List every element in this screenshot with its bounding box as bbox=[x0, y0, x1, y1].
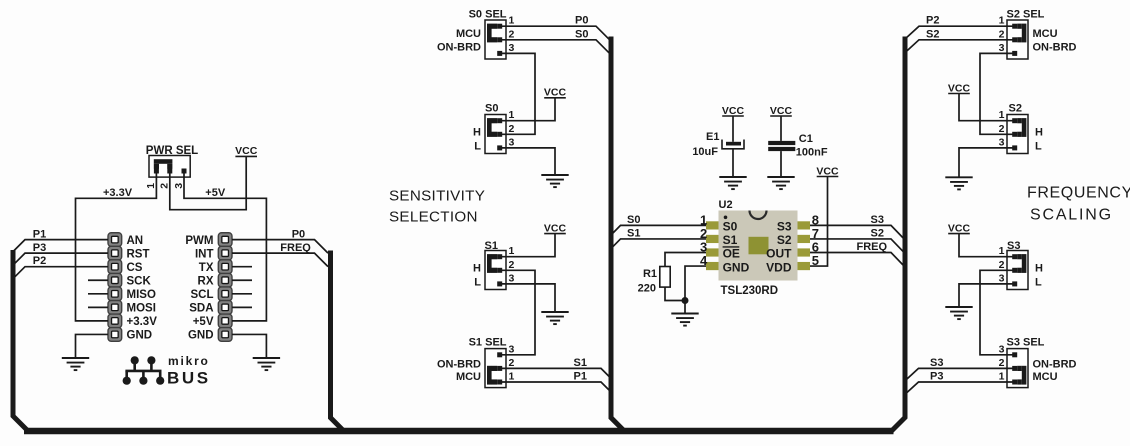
svg-text:VDD: VDD bbox=[766, 260, 792, 274]
wire net FREQ from CN2 INT to bus bbox=[232, 253, 328, 267]
svg-text:RX: RX bbox=[198, 275, 214, 287]
pin names of CN2 right column bbox=[185, 235, 213, 342]
svg-text:3: 3 bbox=[999, 272, 1005, 284]
jumper S2 bbox=[1007, 115, 1028, 154]
svg-text:S3: S3 bbox=[871, 214, 884, 226]
svg-text:ON-BRD: ON-BRD bbox=[437, 42, 481, 54]
svg-text:S3: S3 bbox=[1007, 240, 1020, 252]
svg-text:1: 1 bbox=[999, 109, 1005, 121]
svg-text:FREQ: FREQ bbox=[280, 242, 311, 254]
svg-text:VCC: VCC bbox=[544, 87, 567, 99]
connector CN2 mikroBUS right column (PWM..GND) bbox=[218, 233, 232, 342]
wire PWR SEL pin1 to +3.3V rail to CN1 +3.3V pin bbox=[76, 171, 157, 321]
pin numbers of S1 bbox=[509, 245, 515, 284]
wire stub CN2 SDA bbox=[232, 306, 252, 308]
svg-text:P2: P2 bbox=[33, 255, 46, 267]
svg-text:2: 2 bbox=[159, 183, 171, 189]
wire net S3 from U2 pin8 to bus bbox=[810, 225, 905, 239]
svg-text:FREQ: FREQ bbox=[857, 241, 888, 253]
pin numbers of S0 SEL bbox=[509, 15, 515, 54]
svg-text:3: 3 bbox=[999, 42, 1005, 54]
svg-text:1: 1 bbox=[509, 15, 515, 27]
wire net FREQ from U2 pin6 to bus bbox=[810, 253, 905, 267]
svg-text:+5V: +5V bbox=[205, 187, 226, 199]
svg-text:S1: S1 bbox=[723, 233, 738, 247]
wire S2 pin3 to ground bbox=[959, 148, 1015, 177]
wire net P0 from CN2 PWM to bus bbox=[232, 240, 328, 254]
svg-text:PWM: PWM bbox=[185, 235, 213, 247]
svg-text:H: H bbox=[1035, 126, 1043, 138]
wire S3 pin1 to VCC bbox=[959, 234, 1015, 257]
svg-text:ON-BRD: ON-BRD bbox=[437, 358, 481, 370]
wire net P3 from S3 SEL pin1 to bus bbox=[905, 382, 1015, 395]
wire bus right vertical (frequency scaling nets) bbox=[892, 37, 906, 432]
svg-text:S1: S1 bbox=[627, 228, 640, 240]
svg-text:+3.3V: +3.3V bbox=[103, 187, 133, 199]
svg-text:S0: S0 bbox=[575, 28, 588, 40]
wire net S2 from S2 SEL pin2 to bus bbox=[905, 40, 1015, 53]
wire net S0 from bus to U2 pin1 bbox=[611, 225, 706, 235]
svg-text:S1: S1 bbox=[574, 357, 587, 369]
svg-text:GND: GND bbox=[188, 330, 214, 342]
wire net P2 from S2 SEL pin1 to bus bbox=[905, 26, 1015, 39]
svg-text:1: 1 bbox=[509, 245, 515, 257]
wire S3 pin2 to S3 SEL pin3 bbox=[980, 270, 1015, 355]
svg-text:P1: P1 bbox=[574, 371, 587, 383]
wire net P1 from bus to CN1 AN bbox=[13, 240, 108, 252]
wire S1 pin2 to S1 SEL pin3 bbox=[500, 270, 535, 355]
power symbol VCC (S1 pin1) bbox=[544, 222, 567, 234]
svg-text:2: 2 bbox=[509, 28, 515, 40]
pin numbers of S3 SEL bbox=[999, 343, 1005, 382]
IC U2 TSL230RD body bbox=[706, 211, 810, 281]
svg-text:U2: U2 bbox=[719, 199, 733, 211]
ground (S3 pin3) bbox=[945, 307, 972, 319]
svg-text:+3.3V: +3.3V bbox=[127, 316, 158, 328]
wire PWR SEL pin3 to +5V rail to CN2 +5V pin bbox=[184, 171, 266, 321]
wire net P3 from bus to CN1 RST bbox=[13, 253, 108, 265]
svg-text:3: 3 bbox=[509, 343, 515, 355]
svg-text:P3: P3 bbox=[930, 371, 943, 383]
svg-text:VCC: VCC bbox=[770, 105, 793, 117]
wire S0 pin1 to VCC bbox=[500, 98, 555, 121]
svg-text:INT: INT bbox=[195, 248, 214, 260]
svg-text:S3 SEL: S3 SEL bbox=[1007, 337, 1045, 349]
svg-text:SCL: SCL bbox=[191, 289, 214, 301]
ground (CN2 GND) bbox=[253, 358, 280, 370]
wire S3 pin3 to ground bbox=[959, 284, 1015, 307]
wire S2 pin1 to VCC bbox=[959, 94, 1015, 121]
jumper S3 SEL bbox=[1007, 349, 1028, 388]
pin numbers of S0 bbox=[509, 109, 515, 148]
svg-text:100nF: 100nF bbox=[796, 147, 828, 159]
ground (S0 pin3) bbox=[541, 175, 568, 187]
jumper S2 SEL bbox=[1007, 20, 1028, 59]
wire PWR SEL pin2 to VCC bbox=[170, 156, 246, 209]
svg-text:MCU: MCU bbox=[456, 371, 481, 383]
svg-text:ON-BRD: ON-BRD bbox=[1033, 42, 1077, 54]
wire S2 SEL pin3 to S2 pin2 bbox=[980, 53, 1015, 134]
svg-text:2: 2 bbox=[509, 123, 515, 135]
wire S0 SEL pin3 to S0 pin2 bbox=[500, 53, 535, 134]
svg-text:GND: GND bbox=[127, 330, 153, 342]
svg-text:S0: S0 bbox=[485, 103, 498, 115]
svg-text:3: 3 bbox=[999, 343, 1005, 355]
pin numbers of S2 bbox=[999, 109, 1005, 148]
svg-text:AN: AN bbox=[127, 235, 144, 247]
svg-text:VCC: VCC bbox=[948, 82, 971, 94]
svg-text:SCK: SCK bbox=[127, 275, 152, 287]
svg-text:3: 3 bbox=[509, 272, 515, 284]
wire stub CN1 SCK bbox=[88, 279, 108, 281]
power symbol VCC (S3 pin1) bbox=[948, 222, 971, 234]
wire net P0 from S0 SEL pin1 to bus bbox=[500, 26, 611, 41]
power symbol VCC (E1) bbox=[722, 105, 745, 117]
wire VCC to E1 plus plate bbox=[732, 116, 734, 142]
ground (C1) bbox=[767, 177, 794, 189]
svg-text:VCC: VCC bbox=[235, 145, 258, 157]
svg-text:PWR SEL: PWR SEL bbox=[146, 145, 198, 157]
power symbol VCC (U2 VDD) bbox=[816, 165, 839, 177]
svg-text:3: 3 bbox=[173, 183, 185, 189]
svg-text:H: H bbox=[473, 262, 481, 274]
svg-text:3: 3 bbox=[509, 42, 515, 54]
wire bus bottom horizontal bbox=[24, 428, 894, 435]
svg-text:S2 SEL: S2 SEL bbox=[1007, 9, 1045, 21]
svg-text:S2: S2 bbox=[1009, 103, 1022, 115]
power symbol VCC (C1) bbox=[770, 105, 793, 117]
wire E1 minus plate to ground bbox=[732, 149, 734, 177]
wire stub CN2 TX bbox=[232, 266, 252, 268]
wire U2 pin3 /OE to R1 top bbox=[665, 253, 706, 267]
svg-text:S0: S0 bbox=[627, 214, 640, 226]
wire stub CN1 MOSI bbox=[88, 306, 108, 308]
wire net S1 from bus to U2 pin2 bbox=[611, 239, 706, 249]
resistor R1 bbox=[660, 267, 670, 288]
pin numbers of S3 bbox=[999, 245, 1005, 284]
wire R1 bottom to junction bbox=[665, 287, 685, 300]
svg-text:S2: S2 bbox=[926, 28, 939, 40]
junction (R1/GND node) bbox=[682, 297, 689, 304]
svg-text:3: 3 bbox=[999, 136, 1005, 148]
svg-text:+5V: +5V bbox=[193, 316, 214, 328]
wire S1 pin1 to VCC bbox=[500, 234, 555, 257]
wire VCC to U2 pin5 VDD bbox=[810, 177, 828, 267]
svg-text:R1: R1 bbox=[643, 268, 657, 280]
svg-text:2: 2 bbox=[999, 259, 1005, 271]
jumper S0 bbox=[485, 115, 506, 154]
ground (S1 pin3) bbox=[541, 312, 568, 324]
svg-text:S0: S0 bbox=[723, 220, 738, 234]
svg-text:CS: CS bbox=[127, 262, 143, 274]
power symbol VCC (S2 pin1) bbox=[948, 82, 971, 94]
svg-text:2: 2 bbox=[999, 28, 1005, 40]
wire stub CN2 RX bbox=[232, 279, 252, 281]
svg-text:S2: S2 bbox=[871, 228, 884, 240]
wire bus left vertical (mikroBUS nets) bbox=[13, 250, 28, 431]
svg-text:3: 3 bbox=[509, 136, 515, 148]
pin numbers of PWR SEL (rotated 1 2 3) bbox=[145, 183, 185, 189]
svg-text:mikro: mikro bbox=[168, 354, 210, 368]
wire S1 pin3 to ground bbox=[500, 284, 555, 312]
svg-text:RST: RST bbox=[127, 248, 150, 260]
svg-text:VCC: VCC bbox=[948, 222, 971, 234]
svg-text:S1 SEL: S1 SEL bbox=[469, 337, 507, 349]
svg-text:2: 2 bbox=[999, 123, 1005, 135]
svg-text:1: 1 bbox=[509, 109, 515, 121]
svg-text:2: 2 bbox=[999, 357, 1005, 369]
ground (S2 pin3) bbox=[945, 177, 972, 189]
svg-text:SELECTION: SELECTION bbox=[389, 208, 478, 225]
svg-text:VCC: VCC bbox=[544, 222, 567, 234]
wire net S2 from U2 pin7 to bus bbox=[810, 239, 905, 253]
power symbol VCC (PWR SEL pin 2) bbox=[235, 145, 258, 157]
svg-text:MOSI: MOSI bbox=[127, 303, 156, 315]
svg-text:S3: S3 bbox=[930, 357, 943, 369]
mikroBUS logo bbox=[123, 354, 211, 388]
wire CN2 GND to ground bbox=[232, 334, 266, 358]
wire bus vertical between sensitivity section and U2 section bbox=[611, 37, 624, 432]
svg-text:OE: OE bbox=[723, 247, 740, 261]
svg-text:MCU: MCU bbox=[456, 28, 481, 40]
wire stub CN1 MISO bbox=[88, 293, 108, 295]
svg-text:L: L bbox=[474, 276, 481, 288]
svg-text:2: 2 bbox=[509, 357, 515, 369]
svg-text:FREQUENCY: FREQUENCY bbox=[1027, 185, 1130, 202]
wire U2 pin4 GND to junction to ground bbox=[685, 266, 706, 313]
svg-text:ON-BRD: ON-BRD bbox=[1033, 358, 1077, 370]
svg-text:H: H bbox=[473, 126, 481, 138]
wire net P1 from S1 SEL pin1 to bus bbox=[500, 382, 613, 394]
wire C1 bottom plate to ground bbox=[780, 151, 782, 177]
svg-text:MCU: MCU bbox=[1033, 28, 1058, 40]
svg-text:GND: GND bbox=[723, 260, 750, 274]
svg-text:VCC: VCC bbox=[816, 165, 839, 177]
pin labels of U2 right (S3 S2 OUT VDD) bbox=[766, 220, 792, 275]
jumper S3 bbox=[1007, 251, 1028, 290]
svg-text:L: L bbox=[1035, 276, 1042, 288]
svg-text:P0: P0 bbox=[575, 15, 588, 27]
svg-text:1: 1 bbox=[509, 371, 515, 383]
wire net P2 from bus to CN1 CS bbox=[13, 267, 108, 279]
wire bus vertical between mikroBUS and sensitivity section bbox=[331, 251, 344, 432]
svg-text:220: 220 bbox=[638, 283, 656, 295]
svg-text:P1: P1 bbox=[33, 228, 46, 240]
svg-text:E1: E1 bbox=[706, 131, 719, 143]
svg-text:C1: C1 bbox=[799, 133, 813, 145]
pin numbers of S2 SEL bbox=[999, 15, 1005, 54]
svg-text:TX: TX bbox=[199, 262, 214, 274]
svg-text:OUT: OUT bbox=[766, 247, 792, 261]
svg-text:MISO: MISO bbox=[127, 289, 156, 301]
wire net S3 from S3 SEL pin2 to bus bbox=[905, 368, 1015, 381]
svg-text:MCU: MCU bbox=[1033, 371, 1058, 383]
svg-text:P3: P3 bbox=[33, 242, 46, 254]
wire net S1 from S1 SEL pin2 to bus bbox=[500, 368, 613, 380]
ground (E1) bbox=[719, 177, 746, 189]
svg-text:P0: P0 bbox=[292, 228, 305, 240]
svg-text:SENSITIVITY: SENSITIVITY bbox=[389, 188, 485, 205]
jumper S1 SEL bbox=[485, 349, 506, 388]
svg-text:2: 2 bbox=[509, 259, 515, 271]
svg-text:BUS: BUS bbox=[167, 369, 211, 388]
svg-text:S3: S3 bbox=[777, 220, 792, 234]
svg-text:SDA: SDA bbox=[189, 303, 213, 315]
svg-text:1: 1 bbox=[145, 183, 157, 189]
svg-text:S1: S1 bbox=[485, 240, 498, 252]
wire stub CN2 SCL bbox=[232, 293, 252, 295]
wire net S0 from S0 SEL pin2 to bus bbox=[500, 40, 611, 55]
pin names of CN1 left column bbox=[127, 235, 158, 342]
pin numbers of U2 right (8 7 6 5) bbox=[812, 212, 819, 268]
ground (U2 GND / R1) bbox=[671, 314, 698, 326]
wire S0 pin3 to ground bbox=[500, 148, 555, 175]
pin numbers of S1 SEL bbox=[509, 343, 515, 382]
wire VCC to C1 top plate bbox=[780, 116, 782, 141]
svg-text:H: H bbox=[1035, 262, 1043, 274]
svg-text:S2: S2 bbox=[777, 233, 792, 247]
pin numbers of U2 left (1 2 3 4) bbox=[700, 212, 708, 268]
svg-text:L: L bbox=[1035, 140, 1042, 152]
svg-text:1: 1 bbox=[999, 371, 1005, 383]
jumper S0 SEL bbox=[485, 20, 506, 59]
svg-text:P2: P2 bbox=[926, 15, 939, 27]
connector CN1 mikroBUS left column (AN..GND) bbox=[108, 233, 122, 342]
svg-text:TSL230RD: TSL230RD bbox=[721, 285, 779, 297]
ground (CN1 GND) bbox=[62, 358, 89, 370]
jumper PWR SEL bbox=[149, 156, 190, 178]
pin labels of U2 left (S0 S1 /OE GND) bbox=[723, 220, 750, 275]
svg-text:1: 1 bbox=[999, 245, 1005, 257]
jumper S1 bbox=[485, 251, 506, 290]
power symbol VCC (S0 pin1) bbox=[544, 87, 567, 99]
svg-text:S0 SEL: S0 SEL bbox=[469, 9, 507, 21]
capacitor E1 (polarized) bbox=[722, 140, 744, 149]
capacitor C1 bbox=[768, 141, 795, 151]
svg-text:VCC: VCC bbox=[722, 105, 745, 117]
svg-text:SCALING: SCALING bbox=[1030, 207, 1113, 224]
wire CN1 GND to ground bbox=[76, 334, 109, 358]
svg-text:1: 1 bbox=[999, 15, 1005, 27]
svg-text:10uF: 10uF bbox=[692, 146, 718, 158]
svg-text:L: L bbox=[474, 140, 481, 152]
